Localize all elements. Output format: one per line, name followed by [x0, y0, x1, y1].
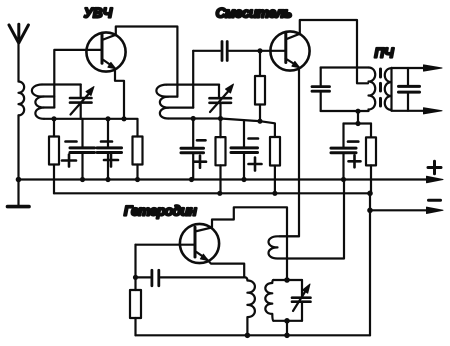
wire coil L3 tap to VT2 base: [192, 51, 194, 108]
transistor VT3: [180, 224, 219, 263]
capacitor C2 electrolytic: [62, 119, 95, 180]
wire C5 to VT2 base: [229, 50, 286, 52]
resistor R3 mixer base bias: [255, 51, 265, 121]
antenna W1: [9, 24, 28, 81]
resistor R2: [124, 119, 143, 180]
node tank2 bottom: [169, 119, 261, 122]
svg-text:УВЧ: УВЧ: [84, 6, 113, 21]
ground: [8, 205, 30, 209]
svg-text:ПЧ: ПЧ: [374, 46, 394, 61]
capacitor C6 electrolytic: [231, 120, 262, 179]
resistor R5 tank2: [216, 119, 226, 194]
wire VT3 emitter: [208, 260, 245, 277]
svg-text:Смеситель: Смеситель: [216, 5, 292, 21]
negative rail stub: [369, 193, 371, 335]
variable capacitor C4: [210, 84, 234, 119]
arrow bus1: [427, 176, 444, 182]
wire R1 bottom through bus1 to bus2: [53, 165, 55, 194]
capacitor C7 electrolytic tank2: [181, 119, 206, 180]
resistor R4: [270, 137, 280, 193]
capacitor C3 electrolytic: [97, 119, 122, 180]
wire VT1 emitter down: [115, 68, 124, 119]
tank1 coil L2 secondary: [32, 85, 81, 119]
wire mast to ground: [17, 180, 19, 205]
svg-text:Гетеродин: Гетеродин: [124, 203, 197, 219]
wire VT3 collector staircase: [211, 207, 288, 280]
resistor R6: [366, 124, 376, 194]
wire to C11: [136, 276, 151, 278]
wire C11 to L7: [160, 276, 245, 278]
capacitor C9 secondary: [399, 68, 420, 111]
wire VT3 base: [136, 244, 196, 246]
wire IF tank bottom to bias: [357, 111, 359, 123]
wire node to R4: [260, 121, 275, 137]
variable capacitor C12: [292, 280, 311, 321]
resistor R7: [130, 277, 141, 335]
bus1 positive rail: [19, 178, 438, 180]
wire VT2 collector to IF transformer: [300, 20, 368, 83]
node tank1 bottom: [44, 118, 124, 120]
capacitor C5 coupling: [222, 42, 227, 61]
resistor R1: [49, 119, 59, 165]
wire VT1 collector to top rail: [116, 27, 178, 97]
feedback coil L6: [269, 180, 345, 259]
IF transformer coil L5 secondary: [385, 68, 392, 111]
wire tank top to bus: [286, 321, 288, 336]
capacitor C8: [312, 68, 330, 112]
heterodyne base coil L7: [245, 277, 255, 335]
capacitor C10 electrolytic: [331, 124, 361, 180]
bus2 rail: [54, 192, 370, 194]
plus sign: [428, 161, 441, 174]
capacitor C11 coupling: [152, 270, 159, 285]
heterodyne tank bottom wire: [273, 320, 302, 322]
transistor VT1: [86, 32, 125, 71]
variable capacitor C1: [70, 85, 94, 119]
output wire top with arrow: [392, 65, 443, 71]
wire antenna to ground bus: [17, 115, 19, 179]
wire tank bottom: [321, 110, 369, 112]
bottom bus heterodyne: [136, 334, 371, 336]
output wire bottom with arrow: [392, 108, 443, 114]
wire VT2 emitter down: [280, 67, 300, 236]
wire VT2 base: [193, 50, 220, 52]
transistor VT2: [270, 31, 309, 70]
heterodyne tank coil L8: [265, 280, 273, 321]
wire bias split: [344, 122, 372, 124]
negative output wire: [370, 209, 437, 211]
antenna coupling coil L1 primary: [19, 82, 25, 116]
IF transformer primary tank top wire: [321, 66, 369, 68]
tank2 coil L3: [156, 85, 219, 119]
arrow negative: [427, 207, 444, 213]
wire base corner down: [134, 245, 136, 278]
IF transformer coil L4 primary: [369, 68, 376, 110]
heterodyne tank top wire: [273, 279, 302, 281]
core dashed: [379, 69, 382, 106]
minus sign: [429, 199, 441, 202]
wire coil L2 tap to VT1 base: [54, 50, 101, 108]
